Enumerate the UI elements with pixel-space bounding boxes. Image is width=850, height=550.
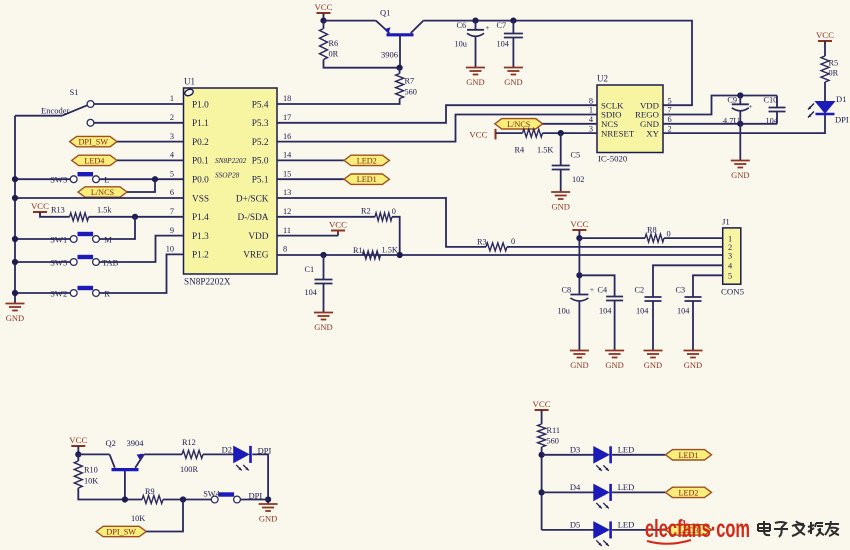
svg-text:VCC: VCC: [816, 30, 834, 40]
svg-text:P1.0: P1.0: [192, 100, 209, 110]
svg-text:10u: 10u: [558, 307, 570, 316]
svg-text:P0.0: P0.0: [192, 176, 209, 186]
svg-text:+: +: [749, 103, 753, 111]
svg-text:VCC: VCC: [533, 399, 551, 409]
svg-text:VCC: VCC: [314, 2, 332, 12]
svg-text:DPI: DPI: [835, 115, 849, 125]
svg-text:17: 17: [283, 113, 291, 122]
svg-text:VCC: VCC: [469, 130, 487, 140]
svg-text:GND: GND: [644, 360, 662, 370]
svg-text:P5.1: P5.1: [252, 176, 269, 186]
svg-text:1: 1: [728, 234, 732, 243]
svg-text:1.5K: 1.5K: [382, 246, 398, 255]
svg-text:1.5K: 1.5K: [537, 146, 553, 155]
svg-text:P5.0: P5.0: [252, 157, 269, 167]
svg-text:VDD: VDD: [248, 232, 268, 242]
svg-text:IC-5020: IC-5020: [598, 154, 628, 164]
svg-text:C8: C8: [562, 286, 572, 295]
svg-text:18: 18: [283, 94, 291, 103]
svg-text:GND: GND: [259, 514, 277, 524]
svg-text:C7: C7: [497, 21, 507, 30]
svg-text:C6: C6: [457, 21, 467, 30]
svg-text:GND: GND: [466, 77, 484, 87]
svg-text:C1: C1: [305, 265, 315, 274]
svg-text:0R: 0R: [829, 69, 839, 78]
svg-text:GND: GND: [551, 202, 569, 212]
svg-text:SW4: SW4: [203, 490, 220, 499]
svg-text:10K: 10K: [84, 477, 98, 486]
svg-text:SSOP28: SSOP28: [215, 171, 240, 180]
svg-text:LED: LED: [618, 482, 635, 492]
svg-text:1: 1: [170, 94, 174, 103]
svg-text:GND: GND: [570, 360, 588, 370]
svg-text:GND: GND: [314, 322, 332, 332]
svg-text:Encoder: Encoder: [41, 106, 69, 116]
svg-text:NRESET: NRESET: [601, 128, 635, 138]
svg-text:P1.3: P1.3: [192, 232, 209, 242]
svg-text:104: 104: [305, 288, 318, 297]
svg-text:0: 0: [392, 207, 396, 216]
svg-text:7: 7: [668, 106, 672, 115]
svg-text:Q2: Q2: [106, 438, 116, 448]
svg-text:14: 14: [283, 151, 292, 160]
svg-text:CON5: CON5: [721, 287, 745, 297]
svg-text:104: 104: [677, 307, 690, 316]
svg-text:R4: R4: [515, 146, 526, 155]
svg-text:LED4: LED4: [84, 156, 104, 165]
svg-text:D+/SCK: D+/SCK: [236, 194, 269, 204]
svg-text:R2: R2: [361, 207, 371, 216]
svg-text:10K: 10K: [131, 514, 145, 523]
svg-text:0R: 0R: [329, 50, 339, 59]
svg-text:3904: 3904: [127, 438, 145, 448]
svg-text:SW3: SW3: [50, 175, 67, 185]
svg-text:R3: R3: [477, 237, 487, 246]
svg-text:1: 1: [589, 106, 593, 115]
svg-text:D-/SDA: D-/SDA: [238, 213, 269, 223]
svg-text:LED1: LED1: [678, 451, 698, 460]
svg-text:D5: D5: [570, 519, 580, 529]
svg-text:U1: U1: [184, 77, 195, 87]
svg-text:U2: U2: [597, 74, 608, 84]
svg-text:R1: R1: [353, 246, 363, 255]
svg-text:5: 5: [728, 272, 732, 281]
svg-text:L/NCS: L/NCS: [91, 188, 115, 197]
svg-text:9: 9: [170, 226, 174, 235]
svg-text:VCC: VCC: [69, 435, 87, 445]
svg-text:SW1: SW1: [50, 234, 67, 244]
svg-text:C2: C2: [635, 286, 645, 295]
svg-text:R8: R8: [647, 226, 657, 235]
svg-text:10: 10: [166, 245, 174, 254]
svg-text:C3: C3: [676, 286, 686, 295]
svg-text:VCC: VCC: [570, 219, 588, 229]
svg-text:C4: C4: [598, 286, 609, 295]
svg-text:6: 6: [668, 115, 672, 124]
svg-text:SW2: SW2: [50, 288, 67, 298]
svg-text:DPI_SW: DPI_SW: [106, 528, 136, 537]
svg-text:P5.3: P5.3: [252, 119, 269, 129]
svg-text:8: 8: [589, 96, 593, 105]
svg-text:2: 2: [668, 124, 672, 133]
svg-text:GND: GND: [504, 77, 522, 87]
svg-text:R10: R10: [84, 466, 98, 475]
svg-text:D4: D4: [570, 482, 581, 492]
svg-text:VSS: VSS: [192, 194, 209, 204]
svg-text:P5.4: P5.4: [252, 100, 269, 110]
svg-text:560: 560: [547, 437, 559, 446]
svg-text:5: 5: [668, 96, 672, 105]
svg-text:L/NCS: L/NCS: [507, 120, 531, 129]
svg-text:8: 8: [283, 245, 287, 254]
svg-text:GND: GND: [6, 313, 24, 323]
svg-text:P1.4: P1.4: [192, 213, 209, 223]
svg-text:elecfans·com: elecfans·com: [645, 515, 750, 543]
svg-text:3: 3: [170, 132, 174, 141]
svg-text:LED2: LED2: [678, 488, 698, 497]
svg-text:J1: J1: [722, 217, 730, 227]
svg-text:LED: LED: [618, 519, 635, 529]
svg-text:12: 12: [283, 207, 291, 216]
svg-text:C9: C9: [727, 96, 737, 105]
svg-text:GND: GND: [684, 360, 702, 370]
svg-text:D3: D3: [570, 444, 580, 454]
svg-text:LED2: LED2: [357, 156, 377, 165]
svg-text:LED: LED: [618, 444, 635, 454]
svg-text:Q1: Q1: [380, 8, 390, 18]
svg-text:VCC: VCC: [329, 220, 347, 230]
svg-text:R11: R11: [547, 426, 561, 435]
svg-text:104: 104: [599, 307, 612, 316]
svg-text:R12: R12: [182, 438, 196, 447]
svg-text:C10: C10: [764, 96, 778, 105]
svg-text:D2: D2: [222, 445, 232, 455]
svg-text:P5.2: P5.2: [252, 138, 269, 148]
svg-text:3: 3: [589, 124, 593, 133]
svg-text:100R: 100R: [180, 465, 198, 474]
svg-text:0: 0: [667, 230, 671, 239]
svg-text:3: 3: [728, 252, 732, 261]
svg-text:15: 15: [283, 169, 291, 178]
svg-text:C5: C5: [571, 151, 581, 160]
svg-text:13: 13: [283, 188, 291, 197]
svg-text:4.7U: 4.7U: [723, 117, 739, 126]
svg-text:16: 16: [283, 132, 291, 141]
svg-text:2: 2: [170, 113, 174, 122]
svg-text:5: 5: [170, 169, 174, 178]
svg-text:S1: S1: [70, 87, 79, 97]
svg-text:102: 102: [572, 175, 584, 184]
svg-text:DPI_SW: DPI_SW: [79, 138, 109, 147]
svg-text:P1.1: P1.1: [192, 119, 209, 129]
svg-text:104: 104: [766, 117, 779, 126]
svg-text:R9: R9: [145, 487, 155, 496]
svg-text:7: 7: [170, 207, 174, 216]
svg-text:SN8P2202X: SN8P2202X: [184, 277, 231, 287]
svg-text:D1: D1: [836, 94, 846, 104]
svg-text:104: 104: [497, 40, 510, 49]
svg-text:GND: GND: [605, 360, 623, 370]
svg-text:6: 6: [170, 188, 174, 197]
svg-text:+: +: [486, 24, 490, 32]
svg-text:0: 0: [511, 237, 515, 246]
svg-text:1.5k: 1.5k: [97, 206, 112, 215]
svg-text:SN8P2202: SN8P2202: [215, 156, 247, 165]
svg-text:R13: R13: [51, 206, 65, 215]
svg-text:P0.2: P0.2: [192, 138, 209, 148]
svg-text:R7: R7: [405, 77, 415, 86]
svg-text:+: +: [590, 286, 594, 294]
svg-text:VCC: VCC: [31, 201, 49, 211]
svg-text:SW5: SW5: [50, 257, 67, 267]
svg-text:P0.1: P0.1: [192, 157, 209, 167]
svg-text:11: 11: [283, 226, 291, 235]
svg-text:10u: 10u: [455, 40, 467, 49]
svg-text:P1.2: P1.2: [192, 251, 209, 261]
svg-text:R5: R5: [829, 59, 839, 68]
svg-text:560: 560: [405, 88, 417, 97]
svg-text:104: 104: [636, 307, 649, 316]
svg-text:R6: R6: [329, 39, 339, 48]
svg-text:3906: 3906: [381, 50, 398, 60]
svg-text:GND: GND: [731, 170, 749, 180]
svg-text:LED1: LED1: [357, 175, 377, 184]
svg-text:VREG: VREG: [243, 251, 269, 261]
svg-text:XY: XY: [646, 128, 659, 138]
